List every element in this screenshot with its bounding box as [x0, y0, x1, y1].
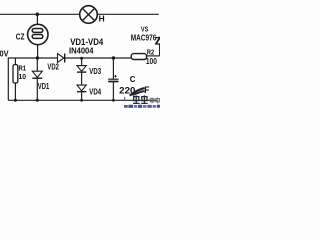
- triac VS (partial, cut at right edge): [156, 37, 161, 45]
- svg-text:100: 100: [146, 57, 157, 66]
- wire mid rail left segment: [8, 57, 57, 59]
- wire capacitor bottom lead: [112, 82, 114, 101]
- wire R1 top lead: [14, 58, 16, 65]
- svg-text:IN4004: IN4004: [69, 47, 94, 56]
- diode VD1: [32, 71, 42, 78]
- svg-text:R2: R2: [147, 48, 154, 57]
- wire VD1 branch upper: [36, 58, 38, 71]
- wire R2 right lead / label fraction bar: [147, 55, 160, 57]
- watermark url line (blue): [124, 105, 160, 108]
- wire top rail left (AC line to lamp): [0, 13, 80, 15]
- wire bottom rail: [8, 99, 157, 101]
- node junction dot mid rail / capacitor: [112, 56, 115, 59]
- lamp H (circle with X): [80, 6, 98, 24]
- diode VD4: [77, 85, 86, 92]
- svg-text:VD4: VD4: [89, 88, 101, 97]
- watermark small glyphs (gray): [150, 98, 159, 104]
- svg-text:CZ: CZ: [16, 33, 25, 42]
- svg-text:MAC976: MAC976: [131, 33, 157, 42]
- svg-text:C: C: [130, 75, 136, 84]
- svg-text:H: H: [99, 14, 105, 24]
- node junction dot mid rail / CZ / VD1: [36, 56, 39, 59]
- node junction dot bottom rail / capacitor: [112, 99, 115, 102]
- wire mid rail right segment: [65, 57, 131, 59]
- watermark brush swoosh: [131, 88, 144, 95]
- wire capacitor top lead: [112, 58, 114, 79]
- wire VD4 bottom lead: [81, 92, 83, 101]
- svg-text:VD1: VD1: [38, 82, 50, 91]
- wire VD3-VD4 link: [81, 72, 83, 85]
- node junction dot bottom rail / VD1: [36, 99, 39, 102]
- wire triac gate riser: [159, 44, 161, 56]
- wire VD3 branch upper: [81, 58, 83, 66]
- node junction dot mid rail / VD3: [80, 57, 83, 60]
- svg-text:VD2: VD2: [47, 63, 59, 72]
- svg-text:10: 10: [19, 72, 27, 81]
- diode VD2 (series in mid rail): [58, 54, 65, 63]
- svg-text:VD3: VD3: [89, 67, 101, 76]
- watermark glyph 1: [133, 95, 140, 103]
- svg-text:0V: 0V: [0, 49, 9, 59]
- background: [0, 0, 160, 110]
- node junction dot bottom rail / R1: [14, 99, 17, 102]
- resistor R2: [131, 54, 146, 60]
- node junction dot bottom rail / VD4: [80, 99, 83, 102]
- node junction dot top rail / CZ: [36, 13, 40, 17]
- watermark left tick: [124, 97, 125, 101]
- wire CZ top lead: [36, 14, 38, 24]
- wire R1 bottom lead: [14, 83, 16, 100]
- diode VD3: [77, 66, 86, 73]
- socket CZ (circle with two slots): [28, 24, 48, 44]
- wire VD1 branch lower: [36, 78, 38, 100]
- wire top rail right (lamp to triac): [97, 13, 158, 15]
- capacitor C (electrolytic): [108, 75, 118, 82]
- watermark glyph 2: [141, 95, 148, 103]
- wire left edge drop: [7, 57, 9, 100]
- wire CZ bottom lead: [37, 45, 39, 58]
- svg-text:F: F: [144, 85, 150, 95]
- resistor R1: [13, 65, 18, 83]
